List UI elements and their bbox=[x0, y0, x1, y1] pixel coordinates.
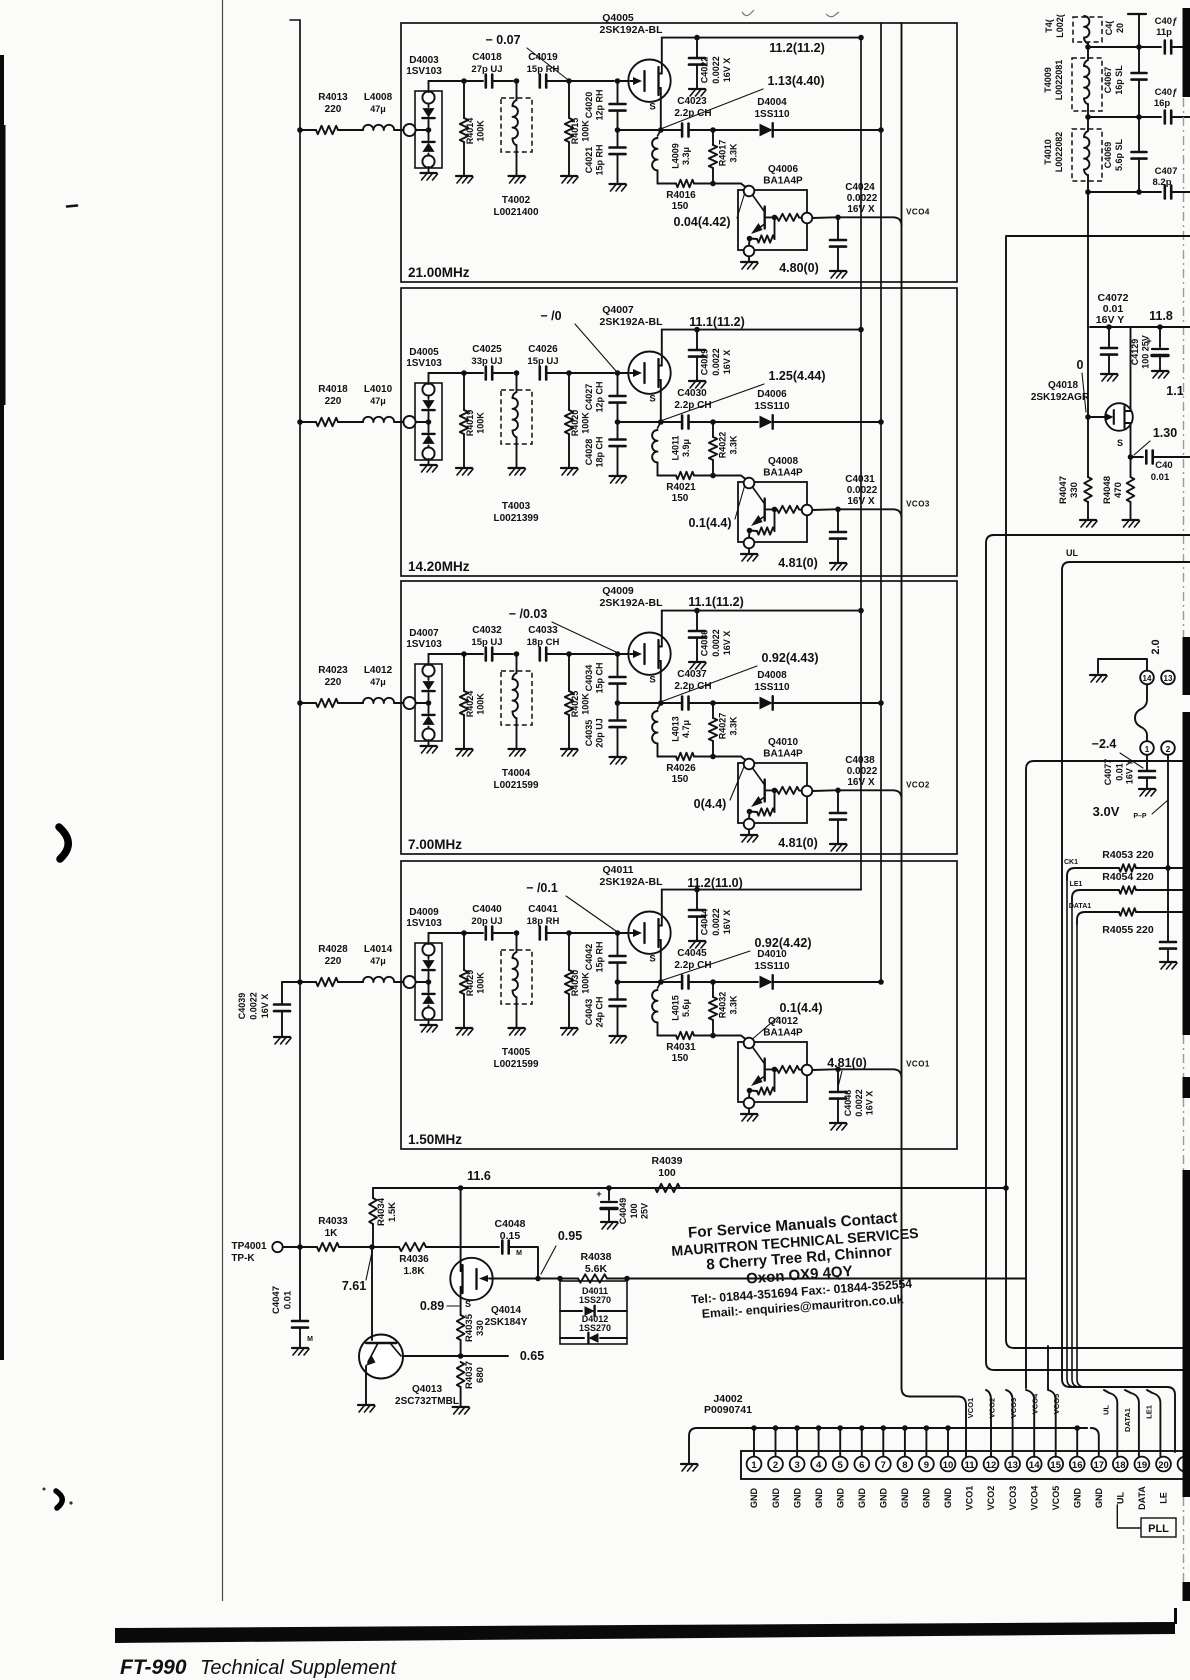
scan artifact bar bbox=[1183, 1170, 1190, 1497]
svg-text:16: 16 bbox=[1072, 1460, 1083, 1471]
svg-text:R4029: R4029 bbox=[465, 970, 475, 997]
inductor L4014 bbox=[363, 977, 394, 982]
svg-text:C4040: C4040 bbox=[472, 904, 502, 915]
svg-text:R4021: R4021 bbox=[666, 482, 696, 493]
svg-text:16V Y: 16V Y bbox=[1096, 314, 1124, 326]
svg-text:R4016: R4016 bbox=[666, 190, 696, 201]
svg-text:Q4006: Q4006 bbox=[768, 164, 798, 175]
svg-text:100K: 100K bbox=[476, 693, 486, 715]
capacitor C4048 0.15 bbox=[426, 1246, 499, 1248]
wire source bbox=[1130, 423, 1132, 457]
capacitor C4031 bbox=[837, 509, 839, 531]
svg-text:1K: 1K bbox=[325, 1228, 339, 1239]
svg-text:4.81(0): 4.81(0) bbox=[827, 1056, 867, 1070]
svg-text:C4043: C4043 bbox=[584, 999, 594, 1026]
capacitor C4037 bbox=[661, 702, 682, 704]
wire bbox=[569, 653, 614, 655]
scan artifact bar bbox=[1183, 1582, 1190, 1601]
wire bbox=[569, 932, 614, 934]
svg-text:0.92(4.43): 0.92(4.43) bbox=[762, 651, 819, 665]
resistor R4022 bbox=[712, 422, 714, 437]
wire to control bus bbox=[773, 981, 881, 983]
node source junction bbox=[615, 127, 621, 133]
capacitor C4077 0.01 16V Y bbox=[1146, 755, 1148, 770]
svg-text:LE1: LE1 bbox=[1070, 881, 1083, 888]
svg-text:16V X: 16V X bbox=[847, 777, 875, 788]
IC pin 1 bbox=[1140, 741, 1154, 755]
svg-text:16V Y: 16V Y bbox=[1125, 760, 1135, 784]
IC pin 2 bbox=[1161, 741, 1175, 755]
ground bbox=[1080, 519, 1096, 521]
svg-text:2.2p CH: 2.2p CH bbox=[674, 108, 711, 119]
pencil mark bbox=[826, 12, 839, 17]
wire drain bbox=[460, 1188, 462, 1271]
svg-text:S: S bbox=[649, 394, 655, 405]
resistor R4024 bbox=[463, 654, 465, 691]
resistor R4013 bbox=[316, 126, 338, 134]
ground bbox=[456, 175, 472, 177]
capacitor C4045 bbox=[661, 981, 682, 983]
ground bbox=[748, 1108, 750, 1113]
svg-text:T4002: T4002 bbox=[502, 195, 531, 206]
svg-text:16p: 16p bbox=[1154, 98, 1171, 109]
svg-text:BA1A4P: BA1A4P bbox=[763, 749, 803, 760]
svg-text:150: 150 bbox=[672, 1053, 689, 1064]
stage box 21.00MHz bbox=[401, 23, 957, 282]
connector pin 11 bbox=[962, 1457, 977, 1472]
resistor R4018 bbox=[316, 418, 338, 426]
svg-text:L0021399: L0021399 bbox=[493, 513, 538, 524]
svg-text:GND: GND bbox=[879, 1488, 889, 1509]
ground bbox=[1152, 370, 1168, 372]
ground bbox=[610, 1035, 626, 1037]
svg-text:0.01: 0.01 bbox=[283, 1290, 294, 1309]
svg-text:1SS110: 1SS110 bbox=[754, 961, 789, 972]
node junction bbox=[1165, 865, 1171, 871]
wire bbox=[627, 1278, 1026, 1280]
svg-text:11.1(11.2): 11.1(11.2) bbox=[688, 595, 744, 609]
capacitor C4047 0.01 bbox=[299, 1247, 301, 1320]
wire bbox=[403, 1355, 461, 1357]
svg-text:C4129: C4129 bbox=[1130, 339, 1140, 366]
svg-text:4.81(0): 4.81(0) bbox=[778, 836, 818, 850]
ground bbox=[428, 740, 430, 745]
svg-text:220: 220 bbox=[325, 104, 342, 115]
svg-text:5.6K: 5.6K bbox=[585, 1263, 608, 1275]
inductor L4011 bbox=[658, 422, 661, 428]
svg-text:0.0022: 0.0022 bbox=[711, 56, 721, 84]
svg-text:C4020: C4020 bbox=[584, 92, 594, 119]
capacitor bypass bbox=[1167, 868, 1169, 941]
svg-text:16p SL: 16p SL bbox=[1114, 65, 1124, 95]
capacitor C4042 bbox=[617, 933, 619, 956]
wire section frame C bbox=[1026, 761, 1190, 1388]
resistor R4016 bbox=[676, 180, 694, 188]
wire drain bbox=[661, 611, 663, 647]
svg-text:15p UJ: 15p UJ bbox=[527, 356, 558, 367]
svg-text:VCO3: VCO3 bbox=[1008, 1486, 1018, 1511]
svg-text:R4034: R4034 bbox=[376, 1197, 387, 1226]
capacitor C4021 bbox=[617, 130, 619, 147]
wire output bbox=[812, 1068, 835, 1071]
wire control bus bbox=[880, 23, 882, 982]
svg-text:C40: C40 bbox=[1155, 460, 1172, 471]
svg-text:Q4010: Q4010 bbox=[768, 737, 798, 748]
svg-text:150: 150 bbox=[672, 201, 689, 212]
wire VCO2 riser bbox=[986, 1390, 991, 1457]
svg-text:L0021400: L0021400 bbox=[493, 207, 538, 218]
svg-text:6: 6 bbox=[859, 1460, 864, 1471]
svg-text:C4033: C4033 bbox=[528, 625, 558, 636]
connector pin 10 bbox=[941, 1457, 956, 1472]
svg-text:C4030: C4030 bbox=[677, 388, 707, 399]
svg-text:C4029: C4029 bbox=[700, 349, 710, 376]
svg-text:16V X: 16V X bbox=[722, 350, 732, 375]
resistor R4053 220 bbox=[1119, 864, 1136, 872]
wire bbox=[300, 702, 316, 704]
svg-text:− 0.07: − 0.07 bbox=[485, 33, 520, 47]
svg-text:VCO1: VCO1 bbox=[966, 1398, 975, 1418]
wire bbox=[394, 129, 405, 131]
wire 11.6 rail bbox=[373, 1187, 1006, 1189]
inductor L4008 bbox=[363, 125, 394, 130]
capacitor C4033 bbox=[538, 648, 541, 661]
svg-text:47μ: 47μ bbox=[370, 677, 386, 687]
svg-text:11.6: 11.6 bbox=[467, 1169, 491, 1183]
svg-text:0.1(4.4): 0.1(4.4) bbox=[779, 1001, 822, 1015]
svg-text:BA1A4P: BA1A4P bbox=[763, 468, 803, 479]
svg-text:13: 13 bbox=[1007, 1460, 1018, 1471]
node control bus junction bbox=[878, 700, 884, 706]
svg-text:GND: GND bbox=[922, 1488, 932, 1509]
svg-text:DATA1: DATA1 bbox=[1123, 1408, 1132, 1432]
svg-text:Q4011: Q4011 bbox=[603, 864, 634, 876]
capacitor C4066 11p bbox=[1088, 46, 1161, 48]
svg-text:GND: GND bbox=[943, 1488, 953, 1509]
svg-text:L0021599: L0021599 bbox=[493, 780, 538, 791]
svg-text:S: S bbox=[649, 954, 655, 965]
resistor R4021 bbox=[676, 472, 694, 480]
svg-text:7.00MHz: 7.00MHz bbox=[408, 837, 462, 852]
svg-text:0.0022: 0.0022 bbox=[711, 629, 721, 657]
wire bbox=[428, 81, 430, 92]
svg-text:330: 330 bbox=[1069, 482, 1080, 498]
svg-text:R4036: R4036 bbox=[399, 1254, 429, 1265]
svg-text:C4025: C4025 bbox=[472, 344, 502, 355]
stage box 7.00MHz bbox=[401, 581, 957, 854]
wire supply rail 11.1(11.2) bbox=[662, 610, 861, 612]
svg-text:BA1A4P: BA1A4P bbox=[763, 176, 803, 187]
node control bus junction bbox=[878, 419, 884, 425]
svg-text:C4035: C4035 bbox=[584, 720, 594, 747]
resistor R4017 bbox=[712, 130, 714, 145]
svg-text:GND: GND bbox=[1094, 1488, 1104, 1509]
node feed junction 21.00MHz bbox=[297, 127, 303, 133]
wire bbox=[569, 80, 614, 82]
node gate-T junction bbox=[514, 78, 520, 84]
resistor R4034 1.5K bbox=[372, 1188, 374, 1198]
svg-text:1.1: 1.1 bbox=[1166, 384, 1183, 398]
svg-text:1SV103: 1SV103 bbox=[406, 918, 442, 929]
capacitor C4020 bbox=[617, 81, 619, 104]
ground bbox=[610, 756, 626, 758]
svg-text:14.20MHz: 14.20MHz bbox=[408, 559, 470, 574]
resistor R4014 bbox=[463, 81, 465, 118]
svg-text:C4028: C4028 bbox=[584, 439, 594, 466]
wire bbox=[1167, 755, 1169, 868]
ground bbox=[610, 183, 626, 185]
capacitor C4028 bbox=[617, 422, 619, 439]
ground bbox=[428, 167, 430, 172]
svg-text:4.81(0): 4.81(0) bbox=[778, 556, 818, 570]
connector pin 16 bbox=[1070, 1457, 1085, 1472]
svg-text:C4031: C4031 bbox=[845, 474, 875, 485]
svg-text:20p UJ: 20p UJ bbox=[595, 718, 605, 748]
svg-text:R4025: R4025 bbox=[570, 691, 580, 718]
wire bbox=[509, 1247, 538, 1279]
svg-text:L0021599: L0021599 bbox=[493, 1059, 538, 1070]
connector pin 21 bbox=[1178, 1457, 1190, 1472]
wire to control bus bbox=[773, 702, 881, 704]
svg-text:GND: GND bbox=[900, 1488, 910, 1509]
wire bbox=[339, 1246, 372, 1248]
footer rule bbox=[115, 1622, 1175, 1643]
ground bbox=[610, 475, 626, 477]
svg-text:16V X: 16V X bbox=[722, 910, 732, 935]
node gate-R1 junction bbox=[461, 78, 467, 84]
svg-text:D4003: D4003 bbox=[409, 55, 439, 66]
svg-text:0.0022: 0.0022 bbox=[847, 766, 878, 777]
svg-text:L4009: L4009 bbox=[671, 143, 681, 169]
connector pin 18 bbox=[1113, 1457, 1128, 1472]
wire DATA1 bbox=[1077, 912, 1119, 924]
wire bbox=[492, 932, 513, 934]
capacitor C4022 bbox=[694, 35, 700, 41]
svg-text:UL: UL bbox=[1116, 1492, 1126, 1504]
svg-text:17: 17 bbox=[1094, 1460, 1105, 1471]
wire source bbox=[660, 661, 662, 703]
svg-text:M: M bbox=[307, 1336, 313, 1343]
svg-text:1SV103: 1SV103 bbox=[406, 66, 442, 77]
svg-text:− /0.03: − /0.03 bbox=[509, 607, 548, 621]
node control bus junction bbox=[878, 979, 884, 985]
svg-text:R4013: R4013 bbox=[318, 92, 348, 103]
svg-text:C4069: C4069 bbox=[1103, 142, 1113, 169]
svg-text:0.01: 0.01 bbox=[1151, 472, 1170, 483]
svg-text:BA1A4P: BA1A4P bbox=[763, 1028, 803, 1039]
svg-text:T4009: T4009 bbox=[1043, 67, 1053, 93]
svg-text:16V X: 16V X bbox=[722, 631, 732, 656]
svg-text:R4026: R4026 bbox=[666, 763, 696, 774]
transformer T4010 L0022082 bbox=[1072, 129, 1102, 181]
svg-text:R4030: R4030 bbox=[570, 970, 580, 997]
capacitor C4036 bbox=[694, 608, 700, 614]
svg-text:4: 4 bbox=[816, 1460, 822, 1471]
svg-text:VCO3: VCO3 bbox=[1009, 1398, 1018, 1418]
svg-text:47μ: 47μ bbox=[370, 956, 386, 966]
wire bbox=[689, 129, 711, 131]
resistor R4027 bbox=[712, 703, 714, 718]
node gate-R1 junction bbox=[461, 651, 467, 657]
svg-text:2SK192AGR: 2SK192AGR bbox=[1031, 392, 1090, 403]
svg-text:2SK192A-BL: 2SK192A-BL bbox=[599, 316, 663, 328]
capacitor C4038 bbox=[837, 790, 839, 812]
svg-text:100K: 100K bbox=[581, 120, 591, 142]
capacitor C4069 5.6p SL bbox=[1138, 117, 1140, 151]
svg-text:100K: 100K bbox=[581, 412, 591, 434]
svg-text:16V X: 16V X bbox=[865, 1091, 875, 1116]
resistor R4032 bbox=[712, 982, 714, 997]
svg-text:Q4013: Q4013 bbox=[412, 1384, 442, 1395]
wire bbox=[492, 653, 513, 655]
svg-text:PLL: PLL bbox=[1148, 1523, 1169, 1535]
svg-text:Q4009: Q4009 bbox=[602, 585, 634, 597]
resistor R4047 330 bbox=[1087, 417, 1089, 477]
svg-text:0.0022: 0.0022 bbox=[847, 485, 878, 496]
inductor L4010 bbox=[363, 417, 394, 422]
svg-text:19: 19 bbox=[1137, 1460, 1148, 1471]
svg-text:GND: GND bbox=[792, 1488, 802, 1509]
ground bbox=[428, 459, 430, 464]
svg-text:100K: 100K bbox=[476, 120, 486, 142]
svg-text:15p RH: 15p RH bbox=[595, 144, 605, 175]
transformer T4002 bbox=[501, 98, 532, 152]
svg-text:24p CH: 24p CH bbox=[595, 996, 605, 1027]
inductor L4015 bbox=[658, 982, 661, 988]
svg-text:100K: 100K bbox=[581, 693, 591, 715]
svg-text:C4023: C4023 bbox=[677, 96, 707, 107]
svg-text:S: S bbox=[649, 675, 655, 686]
node emitter junction bbox=[694, 183, 710, 185]
svg-text:VCO1: VCO1 bbox=[906, 1059, 930, 1068]
svg-text:11p: 11p bbox=[1156, 27, 1172, 38]
wire bbox=[300, 129, 316, 131]
ground bbox=[1123, 519, 1139, 521]
svg-text:47μ: 47μ bbox=[370, 104, 386, 114]
svg-text:D4004: D4004 bbox=[757, 97, 787, 108]
svg-text:D4010: D4010 bbox=[757, 949, 787, 960]
svg-text:3.3K: 3.3K bbox=[729, 716, 739, 736]
svg-text:LE1: LE1 bbox=[1145, 1405, 1154, 1419]
ground bbox=[830, 1122, 846, 1124]
svg-text:0.65: 0.65 bbox=[520, 1349, 544, 1363]
svg-text:C4047: C4047 bbox=[271, 1286, 282, 1314]
wire bbox=[394, 981, 405, 983]
svg-text:VCO4: VCO4 bbox=[906, 207, 930, 216]
svg-text:C4018: C4018 bbox=[472, 52, 502, 63]
svg-text:TP4001: TP4001 bbox=[231, 1241, 266, 1252]
svg-text:L4012: L4012 bbox=[364, 665, 393, 676]
svg-text:220: 220 bbox=[325, 956, 342, 967]
node gate-R2 junction bbox=[566, 651, 572, 657]
wire bbox=[394, 421, 405, 423]
wire VCO3 riser bbox=[1006, 1390, 1013, 1457]
svg-text:R4033: R4033 bbox=[318, 1216, 348, 1227]
svg-text:L4015: L4015 bbox=[671, 995, 681, 1021]
svg-text:C4046: C4046 bbox=[843, 1090, 853, 1117]
resistor R4055 220 bbox=[1119, 908, 1136, 916]
svg-text:GND: GND bbox=[749, 1488, 759, 1509]
node source junction bbox=[615, 979, 621, 985]
svg-text:18: 18 bbox=[1115, 1460, 1126, 1471]
svg-text:VCO2: VCO2 bbox=[906, 780, 930, 789]
svg-text:R4015: R4015 bbox=[570, 118, 580, 145]
svg-text:C4(: C4( bbox=[1104, 21, 1114, 36]
svg-text:100K: 100K bbox=[476, 412, 486, 434]
svg-text:P0090741: P0090741 bbox=[704, 1404, 752, 1416]
node source-main junction bbox=[658, 700, 664, 706]
svg-text:1SV103: 1SV103 bbox=[406, 639, 442, 650]
node source junction bbox=[615, 700, 621, 706]
svg-text:R4014: R4014 bbox=[465, 118, 475, 145]
capacitor C4068 16p bbox=[1088, 116, 1161, 118]
scan artifact bar bbox=[1183, 712, 1190, 1035]
connector pin 6 bbox=[854, 1457, 869, 1472]
wire DATA1 riser bbox=[1125, 1390, 1139, 1457]
node junction bbox=[624, 1276, 630, 1282]
svg-text:2: 2 bbox=[773, 1460, 778, 1471]
svg-text:12p CH: 12p CH bbox=[595, 381, 605, 412]
svg-text:L4010: L4010 bbox=[364, 384, 393, 395]
wire VCO4 riser bbox=[1026, 1390, 1034, 1457]
node gate-C junction bbox=[615, 930, 621, 936]
ground bbox=[830, 843, 846, 845]
ground bbox=[561, 1027, 577, 1029]
ground bbox=[748, 256, 750, 261]
svg-text:18p RH: 18p RH bbox=[527, 916, 560, 927]
svg-text:GND: GND bbox=[857, 1488, 867, 1509]
wire LE1 bbox=[1072, 890, 1119, 902]
svg-text:Technical Supplement: Technical Supplement bbox=[200, 1657, 397, 1679]
wire section frame A bbox=[1006, 236, 1190, 1348]
svg-text:16V X: 16V X bbox=[847, 496, 875, 507]
svg-text:C4044: C4044 bbox=[700, 909, 710, 936]
wire source bbox=[660, 88, 662, 130]
svg-text:C4067: C4067 bbox=[1103, 67, 1113, 94]
transformer T4009 L0022081 bbox=[1072, 58, 1102, 111]
svg-text:R4018: R4018 bbox=[318, 384, 348, 395]
svg-text:L4008: L4008 bbox=[364, 92, 393, 103]
node junction bbox=[1085, 44, 1091, 50]
svg-text:3.3K: 3.3K bbox=[729, 995, 739, 1015]
wire LE1 riser bbox=[1147, 1390, 1160, 1457]
node gate-R2 junction bbox=[566, 370, 572, 376]
capacitor C4032 bbox=[484, 648, 487, 661]
svg-text:3.9μ: 3.9μ bbox=[681, 439, 691, 457]
ground bbox=[748, 829, 750, 834]
svg-text:TP-K: TP-K bbox=[231, 1253, 255, 1264]
ground bbox=[561, 748, 577, 750]
node feed junction 7.00MHz bbox=[297, 700, 303, 706]
svg-text:1SS110: 1SS110 bbox=[754, 682, 789, 693]
svg-text:C4019: C4019 bbox=[528, 52, 558, 63]
svg-text:100 25V: 100 25V bbox=[1141, 335, 1151, 369]
wire bbox=[338, 702, 363, 704]
svg-text:VCO2: VCO2 bbox=[988, 1398, 997, 1418]
wire bbox=[658, 1035, 677, 1037]
svg-text:1.50MHz: 1.50MHz bbox=[408, 1132, 462, 1147]
antenna stub bbox=[1128, 13, 1146, 15]
ground bbox=[689, 940, 705, 942]
wire UL riser bbox=[1104, 1390, 1117, 1457]
connector pin 9 bbox=[919, 1457, 934, 1472]
svg-text:15p RH: 15p RH bbox=[595, 941, 605, 972]
svg-text:7.61: 7.61 bbox=[342, 1279, 366, 1293]
svg-text:GND: GND bbox=[835, 1488, 845, 1509]
svg-text:R4038: R4038 bbox=[581, 1251, 612, 1263]
ground bbox=[456, 748, 472, 750]
wire bbox=[394, 702, 405, 704]
